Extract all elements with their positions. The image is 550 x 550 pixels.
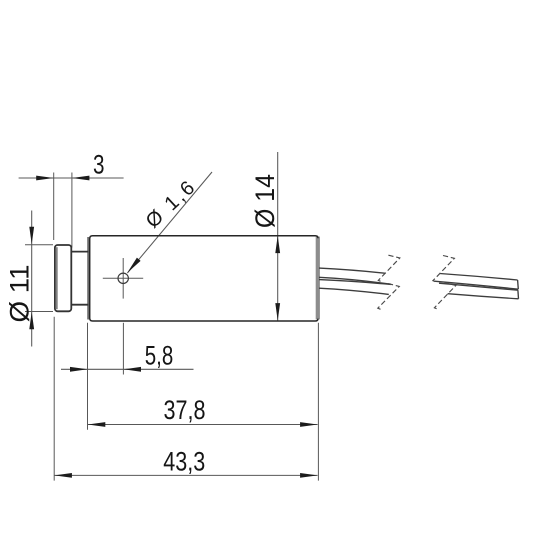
svg-text:Ø 11: Ø 11 [5,265,35,323]
svg-text:Ø 14: Ø 14 [250,174,280,228]
svg-text:37,8: 37,8 [164,395,206,425]
svg-text:3: 3 [93,150,105,180]
svg-text:43,3: 43,3 [163,446,205,476]
svg-text:Ø 1,6: Ø 1,6 [142,177,199,233]
svg-text:5,8: 5,8 [145,341,174,371]
